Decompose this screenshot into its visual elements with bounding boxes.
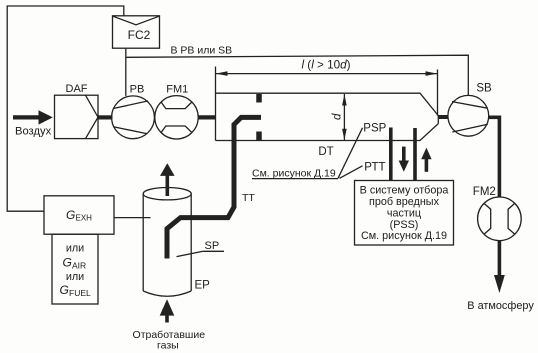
svg-text:SB: SB: [476, 82, 492, 94]
arrow: exhaust out of EP top: [166, 176, 170, 197]
arrow up: return flow: [421, 148, 431, 160]
orifice plate top segment: [256, 94, 262, 103]
svg-text:частиц: частиц: [387, 207, 421, 219]
box fuel/air alternatives: [52, 234, 98, 304]
exhaust pipe EP cylinder: [143, 194, 191, 291]
svg-text:РТТ: РТТ: [364, 162, 385, 174]
svg-text:EP: EP: [195, 279, 211, 291]
link SB to FM2: [489, 116, 500, 120]
svg-text:или: или: [66, 242, 84, 254]
svg-text:В систему отбора: В систему отбора: [360, 184, 449, 196]
svg-text:или: или: [66, 271, 84, 283]
wire: recirculation loop GEXH to FC2: [7, 6, 124, 211]
svg-text:ТТ: ТТ: [242, 192, 255, 204]
flow meter FM1: [155, 96, 198, 139]
svg-text:PB: PB: [130, 84, 145, 96]
svg-text:EXH: EXH: [76, 214, 93, 223]
svg-text:(PSS): (PSS): [390, 219, 419, 231]
wire GEXH to EP: [114, 217, 151, 219]
svg-text:SP: SP: [205, 240, 220, 252]
flow meter FM2: [478, 197, 522, 241]
box PSS system note: [355, 181, 454, 246]
svg-text:FC2: FC2: [128, 28, 151, 42]
svg-text:Воздух: Воздух: [15, 126, 52, 138]
FC2 envelope flap: [113, 16, 159, 25]
blower PB: [112, 96, 155, 139]
dilution tunnel DT outline: [216, 67, 439, 141]
wire: FC2 to PB: [125, 48, 127, 96]
svg-text:DAF: DAF: [66, 83, 88, 95]
exhaust line to atmosphere: [498, 241, 502, 277]
box FC2: [113, 16, 160, 48]
leader to PSP: [338, 128, 363, 179]
svg-text:FUEL: FUEL: [69, 288, 91, 298]
svg-text:FM2: FM2: [473, 186, 496, 198]
arrow: exhaust gases into EP: [160, 299, 175, 315]
link FM1 to dilution tunnel: [198, 115, 216, 119]
svg-text:газы: газы: [157, 339, 179, 351]
svg-text:G: G: [60, 283, 69, 297]
stub: tunnel outlet to SB: [438, 115, 448, 119]
filter DAF box: [55, 95, 99, 138]
svg-text:DT: DT: [318, 146, 333, 158]
dimension d: line, arrows, label: [343, 94, 345, 140]
svg-text:l (l > 10d): l (l > 10d): [301, 59, 350, 72]
wire: dilution air to РВ or SB: [126, 55, 469, 95]
svg-text:AIR: AIR: [72, 261, 86, 271]
arrow down: sample flow to PSS: [402, 147, 406, 162]
svg-text:d: d: [332, 113, 344, 120]
svg-text:PSP: PSP: [363, 122, 386, 134]
transfer tube TT (thick pipe from EP into tunnel): [167, 117, 261, 258]
blower SB: [448, 95, 489, 136]
DAF funnel: [86, 95, 99, 138]
box GEXH: [44, 196, 114, 234]
link DAF to PB: [98, 115, 113, 119]
svg-text:В РВ или SB: В РВ или SB: [171, 44, 233, 56]
svg-text:G: G: [63, 256, 72, 270]
leader to PTT: [340, 166, 363, 179]
svg-text:См. рисунок Д.19: См. рисунок Д.19: [361, 230, 447, 242]
orifice plate bottom segment: [256, 132, 262, 141]
probe PSP: [389, 128, 393, 181]
dimension l: line, arrows, extension, text: [216, 73, 438, 75]
svg-text:FM1: FM1: [166, 84, 188, 96]
svg-text:В атмосферу: В атмосферу: [467, 300, 534, 312]
arrow: Воздух air inlet: [13, 115, 40, 119]
svg-text:проб вредных: проб вредных: [369, 196, 440, 208]
probe PTT: [413, 128, 417, 181]
svg-text:G: G: [66, 208, 75, 222]
svg-text:См. рисунок Д.19: См. рисунок Д.19: [252, 167, 336, 179]
